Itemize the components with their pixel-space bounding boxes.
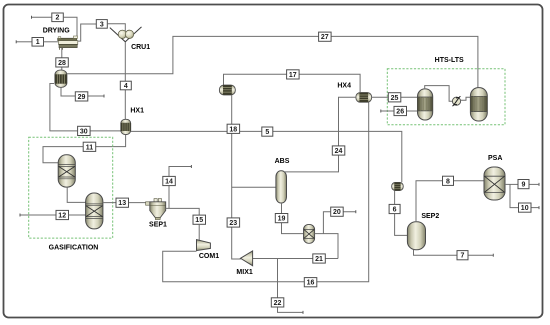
- stream box 10: [519, 203, 532, 212]
- wire vessel bottom to stream 29: [61, 88, 104, 98]
- svg-text:7: 7: [461, 253, 465, 260]
- svg-text:14: 14: [165, 179, 173, 186]
- stream box 13: [116, 198, 129, 207]
- heat exchanger vessel (28): [55, 70, 67, 87]
- svg-text:28: 28: [58, 60, 66, 67]
- svg-text:13: 13: [118, 200, 126, 207]
- wire stream 24 ABS top to HX4 left: [285, 97, 356, 172]
- stream box 27: [319, 32, 332, 41]
- svg-text:HX1: HX1: [130, 107, 144, 114]
- wire stream 17 HX4 top to cooler HX: [224, 74, 361, 92]
- wire vessel left to stream 30 to HX1: [50, 84, 121, 131]
- heat exchanger HX1: [121, 119, 131, 134]
- svg-text:24: 24: [335, 148, 343, 155]
- svg-text:20: 20: [333, 209, 341, 216]
- svg-text:17: 17: [289, 72, 297, 79]
- wire stream 1 to dryer: [44, 41, 59, 43]
- svg-text:8: 8: [446, 178, 450, 185]
- stream box 7: [457, 251, 468, 260]
- stream box 26: [394, 106, 407, 115]
- heater vessel (X): [304, 224, 315, 243]
- wire dryer bottom to stream 28: [61, 48, 63, 70]
- wire stream 11 HX1 bottom to gasifier: [43, 135, 126, 163]
- heat exchanger (cooler 17-18): [219, 85, 235, 95]
- svg-text:5: 5: [265, 129, 269, 136]
- wire stream 25 HX4 to HTS: [371, 96, 418, 98]
- wire SEP1 outlet with stream 14 branch: [166, 208, 200, 215]
- wire gasifier1 bottom to gasifier2: [67, 187, 86, 202]
- wire stream 2 to dryer top: [63, 17, 77, 36]
- svg-text:10: 10: [521, 205, 529, 212]
- wire stream 12 to gasifier2: [69, 214, 87, 216]
- svg-text:6: 6: [393, 207, 397, 214]
- svg-text:1: 1: [36, 39, 40, 46]
- stream box 15: [193, 215, 206, 224]
- stream box 6: [389, 204, 400, 213]
- stream box 11: [83, 142, 96, 151]
- wire HTS top to cooler circle: [425, 86, 453, 102]
- mixer MIX1: [241, 251, 253, 266]
- wire stream 15 to COM1: [198, 224, 200, 240]
- stream box 28: [56, 58, 69, 67]
- wire stream 7 SEP2 bottom out: [414, 250, 494, 257]
- svg-text:DRYING: DRYING: [43, 27, 71, 34]
- wire stream 16 COM1 to HX4: [163, 102, 369, 282]
- wire stream 10 PSA out: [510, 184, 539, 209]
- wire stream 13 gasifier2 to SEP1: [103, 202, 146, 204]
- svg-text:26: 26: [396, 109, 404, 116]
- stream box 5: [262, 127, 273, 136]
- stream box 3: [96, 20, 107, 29]
- stream box 4: [120, 81, 131, 90]
- svg-text:29: 29: [78, 94, 86, 101]
- svg-text:12: 12: [58, 213, 66, 220]
- stream box 18: [227, 124, 240, 133]
- svg-text:23: 23: [229, 220, 237, 227]
- stream box 8: [443, 176, 454, 185]
- cyclone SEP1: [146, 199, 166, 220]
- stream box 30: [78, 126, 91, 135]
- wire crusher to HX1 via stream 4: [124, 42, 126, 120]
- wire stream 14 vent: [169, 165, 191, 208]
- svg-text:16: 16: [307, 280, 315, 287]
- svg-text:30: 30: [80, 128, 88, 135]
- stream box 23: [227, 218, 240, 227]
- svg-text:15: 15: [195, 217, 203, 224]
- wire stream 3 to crusher: [107, 24, 125, 31]
- heater circle: [452, 96, 460, 106]
- wire stream 26 feed: [381, 110, 419, 113]
- separator SEP2: [407, 222, 425, 250]
- wire stream 20 vent: [323, 210, 355, 233]
- svg-text:HX4: HX4: [337, 82, 351, 89]
- stream box 24: [332, 146, 345, 155]
- compressor COM1: [197, 240, 211, 251]
- wire ABS feed branch: [232, 186, 277, 188]
- heat exchanger (cooler above 6): [392, 182, 404, 190]
- svg-text:19: 19: [278, 216, 286, 223]
- stream box 25: [388, 93, 401, 102]
- svg-text:SEP2: SEP2: [421, 213, 439, 220]
- reactor vessel 2 (gasifier): [86, 193, 103, 229]
- svg-text:18: 18: [229, 126, 237, 133]
- wire stream 8 SEP2 top to PSA: [416, 181, 484, 222]
- absorber column ABS: [276, 171, 287, 203]
- svg-text:4: 4: [124, 83, 128, 90]
- wire stream 5 HX1 right to cooler, down to HX6: [131, 131, 402, 182]
- svg-text:MIX1: MIX1: [236, 269, 252, 276]
- dashed area HTS-LTS: [387, 69, 505, 125]
- wire stream 1 feed: [16, 40, 31, 43]
- stream box 16: [304, 278, 317, 287]
- heat exchanger HX4: [356, 93, 372, 103]
- stream box 22: [271, 298, 284, 307]
- svg-text:2: 2: [56, 15, 60, 22]
- dryer DRYING: [58, 36, 78, 50]
- wire stream 19 ABS bottom to heater: [282, 203, 305, 234]
- dashed area GASIFICATION: [29, 137, 113, 238]
- wire stream 2 feed: [32, 16, 52, 19]
- stream box 20: [331, 207, 344, 216]
- svg-text:PSA: PSA: [488, 155, 502, 162]
- svg-text:ABS: ABS: [275, 158, 290, 165]
- wire heater right to split: [315, 234, 338, 259]
- wire stream 9 PSA out: [505, 183, 539, 186]
- svg-text:GASIFICATION: GASIFICATION: [49, 244, 99, 251]
- svg-text:COM1: COM1: [199, 253, 219, 260]
- svg-text:21: 21: [315, 256, 323, 263]
- reactor HTS: [418, 89, 433, 120]
- wire stream 21 recycle to MIX1: [252, 258, 338, 260]
- svg-text:9: 9: [522, 182, 526, 189]
- adsorber PSA: [484, 167, 505, 200]
- wire stream 18-23 vertical to MIX1: [232, 95, 241, 259]
- stream box 21: [313, 254, 326, 263]
- stream box 2: [52, 13, 64, 22]
- stream box 12: [56, 210, 69, 219]
- wire stream 6 cooler to SEP2: [395, 191, 408, 236]
- wire cooler to LTS: [460, 97, 470, 100]
- stream box 17: [287, 70, 300, 79]
- svg-text:22: 22: [274, 300, 282, 307]
- svg-text:HTS-LTS: HTS-LTS: [435, 57, 464, 64]
- wire stream 27 long line from vessel right to LTS top: [67, 36, 478, 87]
- svg-text:3: 3: [100, 21, 104, 28]
- stream box 14: [163, 176, 176, 185]
- svg-text:11: 11: [86, 144, 94, 151]
- wire stream 12 feed: [20, 214, 56, 217]
- reactor vessel 1 (gasifier): [58, 155, 75, 187]
- reactor LTS: [470, 88, 487, 121]
- svg-text:27: 27: [321, 34, 329, 41]
- stream box 29: [75, 92, 88, 101]
- svg-text:CRU1: CRU1: [131, 44, 150, 51]
- wire dryer to stream 3: [78, 24, 96, 41]
- crusher CRU1: [110, 27, 142, 42]
- stream box 1: [32, 38, 44, 47]
- stream box 9: [518, 180, 529, 189]
- stream box 19: [275, 214, 288, 223]
- svg-text:SEP1: SEP1: [149, 222, 167, 229]
- svg-text:25: 25: [391, 95, 399, 102]
- wire stream 22 out: [278, 259, 304, 314]
